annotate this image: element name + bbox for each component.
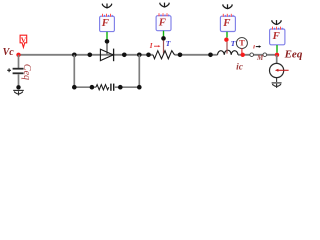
capacitor C2 (bottom) — [111, 84, 114, 91]
wire capacitor branch bottom — [18, 74, 20, 87]
ground (above F2) — [160, 3, 169, 8]
wire source to ground — [276, 78, 278, 82]
arrow M — [256, 45, 261, 48]
node B dot — [88, 53, 93, 58]
svg-text:V: V — [21, 35, 27, 44]
node bottom-left corner dot — [72, 85, 77, 90]
node G dot — [208, 53, 213, 58]
node bottom-right corner dot — [137, 85, 142, 90]
polarity plus sign — [7, 68, 11, 72]
wire main horizontal net — [19, 54, 278, 56]
ground (above F4) — [272, 20, 281, 25]
current marker I — [149, 42, 161, 50]
svg-text:M: M — [256, 54, 264, 62]
node bottom dot 2 — [90, 85, 95, 90]
node F3 output dot (red) — [224, 38, 228, 42]
capacitor Ceq plates — [13, 68, 24, 74]
wire Eeq branch — [276, 55, 278, 64]
inductor L1 — [218, 50, 239, 55]
node A dot — [72, 53, 77, 58]
wire F2 to resistor (marker stub) — [163, 40, 165, 53]
node E dot — [146, 53, 151, 58]
F source F3 box — [220, 14, 235, 32]
node Eeq junction (red dot) — [275, 53, 279, 57]
resistor R2 (main) — [153, 51, 175, 59]
svg-text:Vc: Vc — [3, 47, 15, 58]
bubble T — [236, 38, 247, 53]
diode D1 — [100, 49, 113, 62]
wire loop bottom left segment — [74, 86, 96, 88]
svg-text:T: T — [239, 38, 245, 48]
ground (above F3) — [223, 4, 232, 9]
switch contact left — [250, 53, 254, 57]
wire capacitor branch top — [18, 55, 20, 68]
ground (below capacitor) — [13, 90, 24, 95]
F source F1 box — [100, 14, 115, 32]
svg-text:T: T — [231, 39, 236, 48]
svg-text:T: T — [166, 39, 171, 48]
node C dot — [122, 53, 127, 58]
source Eeq circle — [270, 63, 284, 77]
svg-text:F: F — [272, 30, 281, 42]
pin F2 (green) — [163, 31, 165, 37]
ground (below Eeq source) — [272, 83, 282, 88]
node F1 output dot — [105, 39, 110, 44]
svg-text:F: F — [222, 17, 231, 29]
node F dot — [178, 53, 183, 58]
node F2 output dot — [161, 36, 166, 41]
svg-text:F: F — [101, 17, 110, 29]
svg-text:I: I — [149, 42, 153, 50]
node Vc junction (red dot) — [16, 53, 20, 57]
svg-text:Ceq: Ceq — [21, 64, 32, 80]
node bubble junction (red dot) — [241, 53, 245, 57]
svg-text:ic: ic — [236, 63, 244, 73]
node D dot — [137, 53, 142, 58]
wire F3 to inductor (marker stub) — [226, 42, 228, 54]
wire F1 to main net — [106, 43, 108, 54]
wire loop bottom right segment — [115, 86, 140, 88]
pin F3 (green) — [226, 32, 228, 38]
node capacitor-ground junction — [16, 85, 20, 89]
svg-text:Eeq: Eeq — [284, 49, 303, 61]
resistor R1 (bottom) — [96, 85, 109, 90]
switch contact right — [263, 53, 267, 57]
node bottom dot 3 — [118, 85, 123, 90]
current marker arrow (into Eeq) — [275, 69, 289, 72]
F source F4 box — [270, 27, 285, 45]
wire loop left vertical — [73, 55, 75, 87]
pin F4 (green) — [276, 45, 278, 53]
svg-text:F: F — [158, 16, 167, 28]
F source F2 box — [156, 13, 171, 30]
pin F1 (green) — [106, 32, 108, 40]
wire loop right vertical — [138, 55, 140, 87]
voltage marker V (probe) — [20, 35, 27, 47]
marker tick (red) — [253, 45, 256, 48]
ground (above F1) — [102, 4, 111, 9]
